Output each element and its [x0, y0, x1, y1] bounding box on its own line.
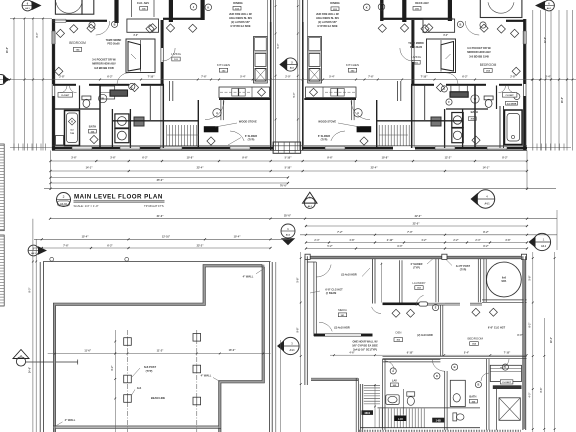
laundry divider wall: [399, 260, 401, 303]
svg-text:5'-10": 5'-10": [285, 156, 293, 159]
posts on top wall: [442, 254, 447, 259]
bath north wall: [383, 359, 441, 361]
marker triangle left strip: [13, 350, 29, 359]
svg-text:B: B: [114, 22, 116, 26]
bedroom row wall: [383, 355, 527, 357]
svg-text:4'-8": 4'-8": [349, 239, 354, 242]
bottom-left dim row 3: [34, 247, 271, 249]
svg-text:7'-10": 7'-10": [148, 76, 156, 79]
svg-text:4" WALL: 4" WALL: [65, 418, 76, 422]
svg-text:7'-6": 7'-6": [201, 76, 207, 79]
den bedroom divider: [439, 305, 441, 356]
svg-text:5'-0": 5'-0": [294, 93, 296, 98]
svg-text:ONE HOUR WALL W/: ONE HOUR WALL W/: [353, 341, 378, 344]
washbasin oval room divider: [402, 389, 404, 414]
media/den divider wall: [314, 333, 373, 335]
dim row 5 total: [44, 188, 556, 190]
svg-text:4x3 SHWR: 4x3 SHWR: [507, 102, 517, 105]
top wall right unit: [383, 18, 453, 20]
hall closet wall right unit: [397, 81, 399, 101]
svg-text:31'-6": 31'-6": [157, 215, 165, 218]
svg-text:3-8 BD BB 1545: 3-8 BD BB 1545: [94, 66, 114, 70]
bed right unit: [427, 39, 456, 73]
hall wall stub left unit: [220, 99, 222, 120]
closet label right unit: [502, 93, 517, 98]
svg-text:12'-2": 12'-2": [445, 156, 453, 159]
svg-text:A4.1: A4.1: [290, 67, 295, 70]
svg-text:CLOSET: CLOSET: [61, 95, 70, 97]
horizontal dimension string y=79.5: [0, 79, 576, 81]
tag on hall wall right: [441, 86, 447, 92]
party wall right pair: [297, 0, 299, 150]
left edge comb ticks: [10, 146, 52, 148]
svg-text:CLOSET: CLOSET: [502, 382, 512, 384]
svg-text:KITCHEN: KITCHEN: [217, 63, 230, 67]
svg-text:8'-2": 8'-2": [483, 231, 489, 234]
svg-text:A4.1: A4.1: [289, 349, 295, 352]
svg-text:2'-10": 2'-10": [387, 239, 394, 242]
stairs small run treads: [364, 384, 380, 386]
left edge hatched strip upper: [0, 144, 4, 231]
svg-text:16'-0": 16'-0": [229, 349, 237, 352]
laundry west wall: [372, 259, 374, 304]
svg-text:A: A: [216, 111, 218, 115]
stair side wall textured: [359, 384, 361, 432]
bottom edge hatch strip: [359, 430, 521, 432]
laundry counter wall: [383, 303, 421, 306]
closet box above bed right: [423, 19, 455, 32]
svg-text:5'-2": 5'-2": [327, 245, 332, 248]
svg-text:MAIN LEVEL FLOOR PLAN: MAIN LEVEL FLOOR PLAN: [74, 193, 163, 200]
marker circle with down triangle: [281, 224, 295, 238]
closet bottom-right: [490, 365, 521, 381]
stairs right unit treads: [378, 125, 380, 146]
bedroom door arc left: [162, 48, 175, 61]
svg-text:5'-4": 5'-4": [329, 76, 335, 79]
svg-text:5'-4": 5'-4": [464, 351, 469, 354]
bedroom door arc right: [400, 48, 413, 61]
center section marker: [284, 58, 297, 71]
dining side walls: [266, 0, 268, 37]
pantry cabinets left unit: [100, 86, 114, 99]
foundation outer wall right: [269, 262, 271, 432]
svg-text:BEDROOM: BEDROOM: [468, 337, 484, 341]
svg-text:(TYP): (TYP): [321, 138, 328, 142]
svg-text:TEMP. MIRBD: TEMP. MIRBD: [408, 42, 424, 45]
left edge hatched strip lower: [0, 235, 4, 306]
svg-text:2x4 @ 16" OC (TYP): 2x4 @ 16" OC (TYP): [353, 348, 377, 351]
vanity right unit: [450, 92, 468, 97]
stair top wall right unit: [377, 120, 463, 122]
posts column 1: [124, 338, 132, 346]
svg-text:10'-8": 10'-8": [187, 156, 195, 159]
jog wall bottom-left of plan: [311, 377, 358, 379]
svg-text:2'-2": 2'-2": [453, 239, 458, 242]
svg-text:PED 36x80: PED 36x80: [107, 42, 120, 45]
marker circle left of foundation plan: [28, 245, 39, 256]
corner box left bath: [56, 136, 64, 146]
svg-text:3'-8": 3'-8": [505, 239, 510, 242]
svg-text:A4.1: A4.1: [484, 203, 490, 206]
svg-text:5'-10": 5'-10": [285, 166, 293, 169]
svg-text:(2) 4x10 HDR: (2) 4x10 HDR: [334, 326, 350, 329]
bottom-right dim row D: [306, 248, 527, 250]
svg-text:BEDROOM: BEDROOM: [480, 63, 497, 67]
svg-text:6'-2": 6'-2": [462, 76, 468, 79]
vanity left unit: [110, 90, 128, 96]
svg-text:25'-0": 25'-0": [284, 214, 292, 218]
svg-text:2'-0": 2'-0": [285, 76, 291, 79]
svg-text:MEDIA: MEDIA: [338, 308, 347, 312]
top plan cut-off rooms above: left garage/tub room: [55, 0, 82, 14]
svg-text:35'-0": 35'-0": [157, 179, 165, 182]
svg-text:DEN: DEN: [396, 331, 402, 335]
svg-text:(2) LAYERS 5/8": (2) LAYERS 5/8": [231, 21, 251, 24]
svg-text:H: H: [71, 121, 73, 124]
stair upper run bottom-right: [364, 385, 380, 387]
svg-text:6x6: 6x6: [502, 277, 507, 280]
svg-text:BEAM LINE: BEAM LINE: [151, 396, 166, 400]
svg-text:10'-4": 10'-4": [234, 236, 242, 239]
svg-text:KITCHEN: KITCHEN: [346, 63, 359, 67]
svg-text:5'-6": 5'-6": [530, 276, 532, 281]
svg-text:DINING: DINING: [233, 1, 242, 5]
svg-text:TP RIGHT FTS: TP RIGHT FTS: [144, 204, 164, 208]
svg-text:7'-10": 7'-10": [421, 76, 429, 79]
leader line from left marker: [26, 361, 78, 363]
bath lower-left vanity bottom-right plan: [450, 380, 465, 406]
svg-text:B: B: [454, 365, 456, 369]
svg-text:TEMP. MIRBD: TEMP. MIRBD: [106, 39, 122, 42]
svg-text:3'-0": 3'-0": [133, 35, 138, 37]
svg-text:6'-8" CLG HGT: 6'-8" CLG HGT: [488, 326, 506, 329]
svg-text:4" WALL: 4" WALL: [201, 373, 212, 377]
svg-text:4" WALL: 4" WALL: [243, 274, 254, 278]
svg-text:6x6 POST: 6x6 POST: [144, 365, 157, 369]
svg-text:6'-2": 6'-2": [142, 156, 148, 159]
svg-text:2'-8": 2'-8": [510, 76, 516, 79]
toilet center bath: [407, 392, 415, 396]
kitchen lower counter right unit: [306, 87, 357, 98]
foundation top edge line: [43, 261, 271, 263]
svg-text:12'-10": 12'-10": [162, 236, 171, 239]
wood stove right unit: [357, 126, 372, 132]
dark label near bath: [432, 418, 444, 423]
svg-text:PED 36x80: PED 36x80: [410, 46, 423, 49]
marker circle right below plan: [476, 190, 494, 208]
svg-text:6'-10": 6'-10": [407, 351, 414, 354]
posts column 2: [193, 334, 201, 342]
svg-text:8'-2": 8'-2": [502, 156, 508, 159]
svg-text:9'-8": 9'-8": [297, 328, 299, 333]
foundation interior bottom wall: [53, 425, 218, 427]
sink center bath: [386, 395, 399, 405]
svg-text:9'-6": 9'-6": [327, 156, 333, 159]
svg-text:LIVING: LIVING: [171, 52, 182, 56]
misc door arcs top plan: [96, 21, 110, 35]
svg-text:2HR FIRE WALL W/: 2HR FIRE WALL W/: [316, 13, 339, 16]
stair dark label L4610: [362, 410, 374, 415]
furnace box right unit: [431, 117, 441, 126]
svg-text:(2) 4x10 HDR: (2) 4x10 HDR: [341, 274, 357, 277]
wall left of tub right unit: [499, 106, 501, 148]
left dim verticals top plan: [13, 19, 15, 151]
svg-text:9'-0": 9'-0": [397, 245, 402, 248]
svg-text:3'-6": 3'-6": [110, 156, 116, 159]
svg-text:22'-0": 22'-0": [415, 215, 423, 218]
spa circle: [487, 262, 522, 297]
diamonds bottom-right plan: [392, 309, 400, 317]
svg-text:8'-0": 8'-0": [30, 288, 32, 293]
door arcs bottom-right plan: [432, 359, 445, 372]
right dim verticals top plan: [532, 10, 534, 151]
bottom plans top dim line: [50, 218, 557, 220]
svg-text:K: K: [366, 5, 368, 9]
kitchen tall counter right unit: [308, 37, 322, 84]
interior wall bath right unit: [446, 108, 488, 110]
svg-text:SPA: SPA: [501, 280, 506, 283]
svg-text:TUB: TUB: [70, 133, 75, 135]
svg-text:2'-8": 2'-8": [59, 76, 65, 79]
svg-text:2: 2: [63, 195, 65, 199]
svg-text:(2) 4x10 HDR: (2) 4x10 HDR: [417, 334, 433, 337]
svg-text:LAUNDRY: LAUNDRY: [412, 281, 425, 285]
bottom-right plan top wall: [305, 255, 527, 257]
closet above (left unit): [131, 0, 133, 17]
svg-text:4x PT POST: 4x PT POST: [456, 265, 471, 268]
bath west wall below door: [444, 371, 446, 430]
top wall left unit: [66, 20, 107, 22]
interior wall bath left unit: [53, 108, 100, 110]
hall wall below bedroom left unit: [53, 84, 76, 86]
svg-text:LAV: LAV: [392, 378, 397, 382]
svg-text:70'-0": 70'-0": [280, 183, 288, 187]
svg-text:WOOD STOVE: WOOD STOVE: [318, 120, 336, 124]
door tags top plan: [112, 21, 118, 27]
vertical dims right of bottom-right plan: [532, 252, 534, 432]
svg-text:14'-1": 14'-1": [483, 166, 491, 169]
svg-text:(TYP): (TYP): [248, 138, 255, 142]
svg-text:5/8" GYP BD EA SIDE: 5/8" GYP BD EA SIDE: [352, 344, 378, 347]
svg-text:3'-4": 3'-4": [545, 76, 551, 79]
svg-text:6'-2": 6'-2": [107, 244, 113, 247]
tub right unit: [505, 110, 523, 145]
stair big run label: [395, 416, 407, 422]
svg-text:3'-6": 3'-6": [71, 156, 77, 159]
svg-text:GYP BD EA SIDE: GYP BD EA SIDE: [317, 25, 337, 28]
svg-text:3-8 BD BB 1545: 3-8 BD BB 1545: [469, 55, 489, 59]
stair top wall left unit: [112, 120, 198, 122]
stair arrow right unit: [379, 134, 408, 136]
svg-text:MIRROR HDW ABV: MIRROR HDW ABV: [467, 50, 491, 54]
svg-text:14'-1": 14'-1": [86, 166, 94, 169]
svg-text:K: K: [207, 5, 209, 9]
furnace box left unit: [134, 117, 144, 126]
svg-text:GYP BD EA SIDE: GYP BD EA SIDE: [230, 25, 250, 28]
bedroom interior dim line: [330, 354, 527, 356]
title circle: [57, 193, 71, 207]
svg-text:5'-4": 5'-4": [240, 76, 246, 79]
svg-text:11'-2": 11'-2": [157, 349, 164, 352]
right wall window: [522, 31, 524, 44]
bottom exterior wall: [52, 145, 527, 147]
right exterior wall: [522, 19, 524, 150]
svg-text:6' SLIDER: 6' SLIDER: [318, 134, 330, 138]
stair big run treads: [378, 407, 481, 409]
marker half circle left edge: [0, 75, 6, 85]
left exterior wall: [51, 19, 53, 150]
washer dryer stack right unit: [452, 113, 463, 128]
diamond outlet symbols top plan: [56, 29, 64, 37]
closet dark shelf: [493, 385, 522, 389]
svg-text:6'-2": 6'-2": [530, 323, 532, 328]
svg-text:6' SLIDER: 6' SLIDER: [245, 134, 257, 138]
closet label left unit: [58, 93, 73, 98]
bottom-right dim row C: [306, 242, 527, 244]
svg-text:8'-0": 8'-0": [37, 33, 39, 38]
svg-text:4'-2": 4'-2": [421, 239, 426, 242]
bottom-right dim row A: [305, 225, 527, 227]
stair arrow left unit: [167, 134, 199, 136]
svg-text:7'-6": 7'-6": [368, 76, 374, 79]
svg-text:(TYP): (TYP): [460, 269, 467, 272]
svg-text:24'-6": 24'-6": [29, 367, 32, 373]
svg-text:7'-10": 7'-10": [504, 351, 511, 354]
stair right wall right unit: [376, 100, 378, 148]
svg-text:(2) LAYERS 5/8": (2) LAYERS 5/8": [318, 21, 338, 24]
vertical dim left of bottom-right plan: [300, 252, 302, 432]
svg-text:4x3: 4x3: [70, 129, 73, 132]
svg-text:D: D: [436, 374, 438, 378]
vertical dim between bottom plans: [280, 340, 282, 432]
svg-text:DECK ABV: DECK ABV: [415, 1, 429, 5]
post beam line 2: [196, 330, 198, 432]
svg-text:BATH: BATH: [471, 110, 478, 114]
svg-text:A: A: [357, 111, 359, 115]
tag on hall wall: [129, 83, 135, 89]
svg-text:12'-6": 12'-6": [545, 37, 547, 43]
svg-text:26'-8": 26'-8": [7, 47, 9, 53]
svg-text:BATH: BATH: [89, 125, 96, 129]
svg-text:2HR FIRE WALL W/: 2HR FIRE WALL W/: [229, 13, 252, 16]
entry door arcs: [230, 131, 244, 141]
bedroom right wall right unit: [411, 20, 413, 84]
svg-text:2'-4": 2'-4": [314, 239, 319, 242]
hall wall stub right unit: [351, 99, 353, 120]
svg-text:3'-0": 3'-0": [443, 35, 448, 37]
door tags bottom-right plan: [390, 368, 396, 374]
stair bottom wall: [360, 427, 480, 429]
svg-text:1-6B: 1-6B: [436, 420, 441, 423]
svg-text:MIRROR HDW ABV: MIRROR HDW ABV: [92, 62, 116, 66]
svg-text:6'-2": 6'-2": [112, 366, 114, 371]
stoop at bottom center: [273, 142, 301, 153]
dim row 2: [51, 170, 528, 172]
bed left unit: [126, 39, 155, 73]
marker circle top-left: [22, 0, 33, 11]
svg-text:A4.1: A4.1: [541, 245, 547, 248]
kitchen wall below counter right: [304, 98, 356, 100]
svg-text:WOOD STOVE: WOOD STOVE: [239, 120, 257, 124]
title underline: [74, 200, 165, 202]
closet side wall left unit: [149, 85, 151, 120]
svg-text:5'-0": 5'-0": [278, 44, 280, 49]
kitchen tall counter left unit: [254, 37, 268, 84]
spa room west walls: [477, 259, 479, 303]
svg-text:15'-4": 15'-4": [82, 236, 90, 239]
svg-text:(TYP): (TYP): [146, 369, 153, 373]
svg-text:6'-2": 6'-2": [107, 76, 113, 79]
x-box attic access: [499, 398, 520, 421]
svg-text:10'-8": 10'-8": [382, 156, 390, 159]
svg-text:4610: 4610: [364, 411, 370, 415]
svg-text:CLOSET: CLOSET: [506, 95, 515, 97]
svg-text:9'-6": 9'-6": [242, 156, 248, 159]
bottom wall windows: [72, 146, 92, 148]
marker circle left of bottom-right plan: [282, 337, 299, 354]
svg-text:4x4: 4x4: [137, 386, 142, 390]
svg-text:(TYP): (TYP): [413, 267, 420, 270]
svg-text:HIGH DENS BL INS: HIGH DENS BL INS: [316, 17, 339, 20]
svg-text:LIVING: LIVING: [411, 55, 422, 59]
laundry interior dim line: [380, 263, 382, 303]
svg-text:BEDROOM: BEDROOM: [69, 41, 86, 45]
bottom-left dim row 2: [34, 238, 290, 240]
dim row 1: [51, 160, 528, 162]
left wall window: [51, 31, 53, 44]
svg-text:7'-2": 7'-2": [337, 231, 343, 234]
tub left unit: [65, 111, 80, 146]
center corridor ticks: [275, 33, 277, 35]
right edge comb ticks: [527, 146, 571, 148]
bottom-right left outer wall: [304, 256, 306, 385]
foundation vertical dim line: [114, 330, 116, 432]
pantry cabinets right unit: [451, 85, 467, 91]
washer dryer stack left unit: [115, 114, 129, 128]
hall wall below bedroom right unit: [411, 84, 434, 86]
svg-text:14R: 14R: [398, 417, 403, 421]
bath west wall bottom-right: [382, 359, 384, 430]
svg-text:2'-4": 2'-4": [475, 239, 480, 242]
wall below laundry-east area: [445, 302, 460, 304]
top plan right garage/tub room: [480, 0, 522, 18]
party wall left pair: [270, 0, 272, 150]
wall stubs at top edge: [114, 0, 118, 23]
svg-text:23'-4": 23'-4": [197, 166, 205, 169]
media room inner west wall: [313, 262, 315, 336]
foundation interior dim line horizontal: [48, 353, 271, 355]
stair left wall right unit: [411, 85, 413, 148]
closet box above bed left: [127, 19, 159, 32]
bedroom right wall left unit: [160, 20, 162, 84]
toilet lower bath: [453, 413, 457, 421]
stair right wall left unit: [197, 100, 199, 148]
svg-text:E: E: [435, 306, 437, 310]
svg-text:6'-8" CLG HGT: 6'-8" CLG HGT: [325, 288, 343, 291]
spa room bottom wall: [482, 299, 527, 301]
svg-text:8'-2": 8'-2": [483, 245, 488, 248]
tub room label right: [506, 101, 518, 105]
svg-text:23'-4": 23'-4": [371, 166, 379, 169]
stairs left unit treads: [165, 125, 167, 146]
hall closet wall left unit: [169, 81, 171, 101]
svg-text:B: B: [477, 383, 479, 387]
svg-text:23'-2": 23'-2": [197, 244, 205, 247]
svg-text:@ BEAM: @ BEAM: [326, 292, 337, 295]
stair vertical dim: [374, 384, 376, 428]
marker triangle below plan center: [303, 192, 318, 203]
laundry east wall: [435, 259, 437, 303]
